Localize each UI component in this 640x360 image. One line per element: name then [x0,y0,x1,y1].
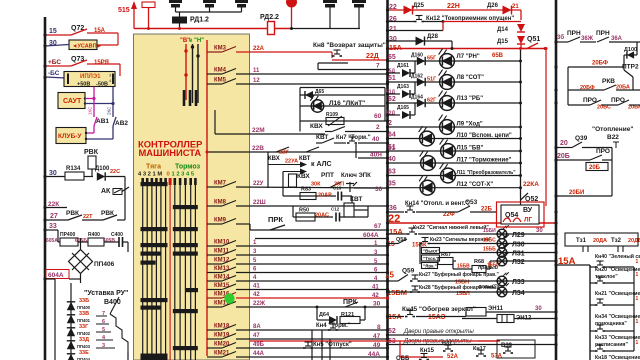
svg-text:R400: R400 [88,232,100,238]
svg-text:Кн40 "Зеленый свет": Кн40 "Зеленый свет" [595,253,640,260]
svg-text:ПРО: ПРО [596,148,610,155]
svg-text:47: 47 [253,333,260,339]
cam column lines left group [142,179,144,360]
junction dots center bus right side [386,8,389,11]
wires linking pressure switches [175,8,177,13]
contact KVH on 22V [276,147,289,152]
resistor EN11 [466,308,486,317]
contact КМ16 wire 42 [207,297,222,299]
contact КМ5 wire 12 [207,83,222,85]
relay RD1.2 [172,17,187,24]
svg-text:Д161: Д161 [397,63,409,69]
diodes D14 D15 Q51 [520,10,522,20]
svg-text:КМ9: КМ9 [214,218,227,224]
svg-text:21: 21 [389,26,397,33]
riser to arrows [267,152,269,188]
svg-text:РПТ: РПТ [321,172,334,179]
contact КМ8 wire 22Ш [207,205,222,207]
svg-text:Л29: Л29 [512,232,525,239]
wire AV1 to KLUB magenta [93,126,95,133]
svg-text:Д65: Д65 [315,89,324,95]
svg-text:R83: R83 [301,187,311,193]
diode ПП403 with wire 33Д [67,341,75,349]
svg-text:30: 30 [389,36,397,43]
wire 22A red [236,51,332,53]
svg-text:51: 51 [388,75,396,82]
svg-text:правый": правый" [478,264,501,271]
junction dots left bus [43,33,46,36]
svg-text:КМ12: КМ12 [214,258,230,264]
svg-text:Л30: Л30 [512,242,525,249]
svg-text:65: 65 [388,54,396,61]
diode ПП400 with wire 33Б [67,302,75,310]
svg-text:Кн5 "Отпуск": Кн5 "Отпуск" [313,342,352,348]
cam bars left group [141,182,168,186]
svg-text:22У: 22У [253,181,264,187]
svg-text:Д163: Д163 [397,84,409,90]
svg-text:АК: АК [101,188,111,195]
svg-text:ПП401: ПП401 [77,318,91,323]
svg-text:22А: 22А [253,46,265,52]
svg-text:Л7 "РН": Л7 "РН" [457,54,480,60]
svg-text:РКВ: РКВ [602,78,615,85]
pressure switch caps top 1 [169,0,182,8]
contact КМ7 wire 22У [207,186,222,188]
svg-text:42: 42 [253,292,260,298]
thermal box Tz1 Tz2 [565,233,638,246]
svg-text:Ключ ЭПК: Ключ ЭПК [341,173,371,179]
svg-text:ПП406: ПП406 [94,261,115,268]
unit KLUB-U [56,128,86,144]
svg-text:605В: 605В [103,238,115,244]
contact КМ13 wire 6 [207,272,222,274]
svg-text:Д164: Д164 [411,95,423,101]
svg-text:22У: 22У [279,150,289,156]
wire 6 [236,272,387,274]
svg-text:60: 60 [374,113,382,120]
svg-text:1: 1 [636,319,639,325]
svg-text:+БС: +БС [48,59,61,66]
diode D65 [300,94,385,96]
svg-text:1: 1 [636,296,639,302]
svg-text:ЭН11: ЭН11 [488,306,504,312]
contact КМ17 wire 22Ж [207,306,222,308]
svg-text:R121: R121 [341,312,354,318]
svg-text:Кн14 "Отопл. и вент.": Кн14 "Отопл. и вент." [405,201,468,207]
wire bridge bottom [80,274,82,283]
svg-text:1: 1 [636,259,639,265]
svg-text:36А: 36А [611,36,623,42]
svg-text:30: 30 [375,186,383,193]
wire 47 [236,338,387,340]
wire 8A with Kn4 [236,329,387,331]
svg-text:20АР: 20АР [318,193,332,199]
wire 49B with Kn5 [236,347,387,349]
svg-text:Двери правые открыты: Двери правые открыты [403,329,474,335]
diode ПП404 with wire 33Е [67,354,75,360]
svg-text:33Е: 33Е [79,350,89,356]
svg-text:15АЭ: 15АЭ [428,314,446,321]
svg-text:65Г: 65Г [427,56,437,62]
svg-text:20БИ: 20БИ [569,190,584,196]
svg-text:КМ15: КМ15 [214,283,230,289]
svg-text:КВХ: КВХ [297,173,310,180]
svg-text:20Б: 20Б [557,153,570,160]
svg-text:Тормоз: Тормоз [175,164,201,171]
svg-text:Д100: Д100 [624,47,637,53]
svg-text:"Выкл": "Выкл" [423,249,440,254]
contact КМ12 wire 5 [207,263,222,265]
dimmer switch boxes to lamp L31 [419,244,421,265]
contact КМ11 wire 3 [207,254,222,256]
svg-text:КВХ: КВХ [268,156,280,162]
svg-text:КМ8: КМ8 [214,200,227,206]
wire 22 top horizontal red [134,28,292,30]
contact КМ20 wire 49Б [207,347,222,349]
svg-text:КМ19: КМ19 [214,333,230,339]
svg-text:ИПЛЭ1: ИПЛЭ1 [80,74,101,80]
svg-text:11: 11 [253,68,260,74]
svg-text:33Д: 33Д [79,337,89,343]
wire SAUT to node magenta [85,98,94,100]
svg-text:ОББ: ОББ [396,356,410,360]
wire 21 red right [443,21,521,23]
svg-text:20ДБ: 20ДБ [628,238,640,244]
svg-text:Л8 "СОТ": Л8 "СОТ" [457,75,485,81]
svg-text:МАШИНИСТА: МАШИНИСТА [139,147,202,158]
svg-text:Д100: Д100 [95,166,110,172]
svg-text:15ББ: 15ББ [483,247,496,253]
svg-text:САУТ: САУТ [63,98,82,105]
svg-text:ПРК: ПРК [268,215,283,224]
wire to USAVP [87,32,118,34]
wire IPLE to SAUT magenta [93,87,95,99]
contact КМ19 wire 47 [207,338,222,340]
svg-text:Д28: Д28 [427,34,439,40]
cam contact bars top [184,90,196,106]
svg-text:35: 35 [388,181,396,188]
svg-text:1 2 3 4 5: 1 2 3 4 5 [172,172,195,178]
svg-text:22КА: 22КА [523,181,539,188]
wire to AK [124,177,126,197]
breaker AV1 [94,117,97,126]
svg-text:33Б: 33Б [79,298,89,304]
junction verticals bottom center [311,330,313,360]
svg-text:КВТ: КВТ [299,156,311,162]
svg-text:Кн34 "Освещение кабины: Кн34 "Освещение кабины [595,313,640,320]
svg-text:22Ш: 22Ш [253,200,266,206]
svg-text:33Г: 33Г [79,324,89,330]
svg-text:РД1.2: РД1.2 [190,17,209,24]
button Кн33 [590,350,596,352]
diode D100 right [636,42,638,55]
wire SAUT to AV2 navy [85,103,113,105]
wire 515 with arrow [133,6,135,29]
wire 1KS magenta [93,99,95,118]
svg-text:КМ14: КМ14 [214,275,230,281]
right vertical bus [555,0,558,360]
cam bars right group [173,205,198,209]
svg-text:+50В: +50В [77,82,90,88]
wire 22Zh with PRK [236,306,387,308]
svg-text:12: 12 [253,78,260,84]
svg-text:-50В: -50В [96,82,108,88]
ladder backbone wire [70,283,72,360]
wire 7 [318,69,387,71]
svg-text:"Туск.": "Туск." [423,256,438,261]
svg-text:0: 0 [167,172,170,178]
svg-text:30К: 30К [311,182,321,188]
junction dots right bus [554,40,557,43]
svg-text:ПП403: ПП403 [77,344,91,349]
svg-text:33: 33 [49,223,57,230]
branch R83 C13 [283,195,336,197]
svg-text:8: 8 [377,324,381,331]
svg-text:В400: В400 [104,299,121,306]
wire 22Sh [236,205,387,207]
svg-text:Кн18 "Освещение: Кн18 "Освещение [595,355,640,360]
svg-text:КМ5: КМ5 [214,78,227,84]
cam column lines right group [174,179,176,360]
svg-text:2: 2 [376,124,380,131]
wire 11 [236,73,387,75]
svg-text:33В: 33В [79,311,89,317]
wire 4 [236,280,387,282]
svg-text:Кн20 "Освещение кабины: Кн20 "Освещение кабины [595,266,640,273]
contact КМ4 wire 11 [207,73,222,75]
contact КМ14 wire 4 [207,280,222,282]
svg-text:Л33: Л33 [512,279,525,286]
svg-text:15А: 15А [389,227,403,236]
svg-text:Д64: Д64 [319,312,330,318]
red feeder line in controller [206,40,208,356]
svg-text:44А: 44А [253,351,265,357]
svg-text:49: 49 [373,342,381,349]
wire 5 [236,263,387,265]
svg-text:КМ11: КМ11 [214,249,230,255]
unit USAVP [69,40,97,50]
svg-text:22Ф: 22Ф [443,212,455,218]
svg-text:Тз1: Тз1 [576,238,587,244]
svg-text:Q39: Q39 [575,135,588,142]
wire 2KS navy [112,104,114,118]
pressure switch caps top 3 [235,0,248,8]
svg-text:51Г: 51Г [427,77,437,83]
svg-text:КЛУБ-У: КЛУБ-У [58,133,82,140]
svg-text:КВТ: КВТ [316,134,328,141]
svg-text:Q53: Q53 [465,199,478,206]
svg-text:515: 515 [118,7,130,14]
svg-text:44А: 44А [368,351,380,358]
pressure switch caps top 2 [203,0,216,8]
contact КМ3 wire 22А [207,51,222,53]
branch R50 C12 [292,206,294,217]
svg-text:Кн45 "Обогрев зеркал": Кн45 "Обогрев зеркал" [402,305,476,313]
svg-text:Q59: Q59 [402,268,415,275]
svg-text:Кн8 "Возврат защиты": Кн8 "Возврат защиты" [313,42,386,49]
wire 67 PRK row [250,229,387,231]
svg-text:22Д: 22Д [366,53,379,60]
wire 604A center [255,238,387,240]
lamp trunk vertical wire [520,49,522,198]
svg-text:ПТР2: ПТР2 [622,64,639,71]
svg-text:4 3 2 1 М: 4 3 2 1 М [138,172,162,178]
feeder to button ladder [556,264,590,266]
svg-text:Л13 "РБ": Л13 "РБ" [457,96,484,102]
green marker dot [224,293,234,303]
wire 604A from bus [46,270,69,279]
branch D64 R121 [316,307,318,320]
svg-text:20: 20 [560,140,568,147]
svg-text:15РЯ: 15РЯ [94,60,109,66]
svg-text:30: 30 [536,228,543,234]
wire IPLE to AV2 navy [112,87,114,104]
svg-text:ВУ: ВУ [523,207,533,214]
selector B400 arm [110,297,119,314]
contact КМ10 wire 1 [207,245,222,247]
wire 22U [236,187,387,188]
svg-text:36Ж: 36Ж [581,36,594,42]
svg-text:КМ18: КМ18 [214,324,230,330]
wire KM9 down [236,223,250,225]
wire AV2 to KLUB navy [112,126,114,139]
svg-text:помощника": помощника" [595,321,627,327]
left vertical bus [44,17,47,360]
svg-text:604А: 604А [363,232,379,239]
unit VU LG box [497,202,545,227]
svg-text:22Ж: 22Ж [253,301,266,307]
svg-text:7: 7 [376,63,380,70]
svg-text:расписания": расписания" [595,342,628,348]
svg-text:В37: В37 [442,341,452,347]
contact КМ21 wire 44А [207,356,222,358]
svg-text:С12: С12 [331,207,340,212]
svg-text:АВ2: АВ2 [115,120,128,127]
svg-text:◄УСАВП►: ◄УСАВП► [72,44,102,50]
wire 40Ya riser [355,144,357,158]
svg-text:ПРН: ПРН [567,30,581,37]
svg-text:30: 30 [373,301,381,308]
wire 41 [236,289,387,291]
svg-text:36: 36 [389,205,397,212]
svg-text:Л34: Л34 [512,290,525,297]
svg-text:64: 64 [388,132,396,139]
latch bracket [317,63,319,70]
svg-text:604А: 604А [48,272,64,279]
diode ПП401 with wire 33В [67,315,75,323]
cam zero column red [169,179,171,360]
button Кн34 [590,330,596,332]
svg-text:42: 42 [372,293,379,299]
svg-text:52: 52 [388,328,396,335]
svg-text:ПП400: ПП400 [77,305,91,310]
svg-text:В22: В22 [607,134,619,141]
svg-text:Кн7 "Торм.": Кн7 "Торм." [336,135,371,141]
button Кн40 [590,266,596,268]
svg-text:Q51: Q51 [527,36,540,43]
svg-text:22Б: 22Б [481,207,493,213]
red riser 22KA [545,49,547,207]
wire to IPLE pin3 [87,63,120,65]
svg-text:63: 63 [388,169,396,176]
svg-text:1КС: 1КС [88,106,93,115]
svg-text:Тяга: Тяга [146,164,161,171]
svg-text:22В: 22В [252,145,264,152]
svg-text:к АЛС: к АЛС [311,161,332,168]
svg-text:3б: 3б [557,34,564,41]
svg-text:КМ20: КМ20 [214,342,230,348]
svg-text:Кн27 "Буферный фонарь прав.": Кн27 "Буферный фонарь прав." [419,271,500,278]
svg-text:605А: 605А [46,238,58,244]
center vertical bus [386,0,389,360]
svg-text:Л31: Л31 [512,251,525,258]
svg-text:ПР400: ПР400 [60,232,75,238]
svg-text:Кн33 "Освещение: Кн33 "Освещение [595,335,640,341]
button Кн21 [590,304,596,306]
svg-text:1: 1 [636,340,639,346]
svg-text:КМ21: КМ21 [214,351,230,357]
svg-text:49Б: 49Б [253,342,265,348]
wire 3 [236,254,387,256]
wire 42 red [236,297,387,299]
svg-text:АВ1: АВ1 [96,118,109,125]
button Kn8 red circle [286,0,297,8]
svg-text:тусклое": тусклое" [595,274,618,280]
unit SAUT [58,93,85,109]
svg-text:КМ13: КМ13 [214,266,230,272]
svg-text:40: 40 [372,136,380,143]
svg-text:В39: В39 [501,343,513,349]
svg-text:"Н": "Н" [194,38,204,44]
junction dots lamp trunk [519,60,522,63]
resistor R109 [300,120,385,122]
svg-text:22С: 22С [110,169,120,175]
svg-text:65В: 65В [492,53,504,59]
junction dots center bus left side [386,58,389,61]
svg-text:15: 15 [49,28,57,35]
contact КМ18 wire 8А [207,329,222,331]
svg-text:КМ10: КМ10 [214,240,230,246]
svg-text:"Отопление": "Отопление" [592,126,633,133]
svg-text:15БС: 15БС [483,238,496,244]
diode ПП402 with wire 33Г [67,328,75,336]
svg-text:Д160: Д160 [411,53,423,59]
svg-text:Д14: Д14 [497,27,509,33]
svg-text:Л16 "ЛКиТ": Л16 "ЛКиТ" [329,100,365,107]
svg-text:С13: С13 [333,186,342,191]
svg-text:ПРН: ПРН [596,30,610,37]
contact КМ9 wire out [207,223,222,225]
contact КМ15 wire 41 [207,289,222,291]
svg-text:62: 62 [388,96,396,103]
svg-text:22Т: 22Т [83,214,93,220]
wire 1 [236,245,387,247]
svg-text:Д165: Д165 [397,105,409,111]
svg-text:30: 30 [535,306,542,312]
svg-text:15БИ: 15БИ [483,228,496,234]
svg-text:41: 41 [372,285,379,291]
svg-text:ЛГ: ЛГ [524,217,533,224]
svg-text:КМ4: КМ4 [214,68,227,74]
wire top horizontal black [292,28,361,30]
svg-text:"Ярк.": "Ярк." [423,264,437,269]
svg-text:52А: 52А [447,354,459,360]
contact KVT on 22V [306,147,319,152]
right edge vertical [633,267,635,351]
svg-text:1: 1 [636,272,639,278]
svg-text:27: 27 [50,213,58,220]
wire 12 [236,83,387,85]
